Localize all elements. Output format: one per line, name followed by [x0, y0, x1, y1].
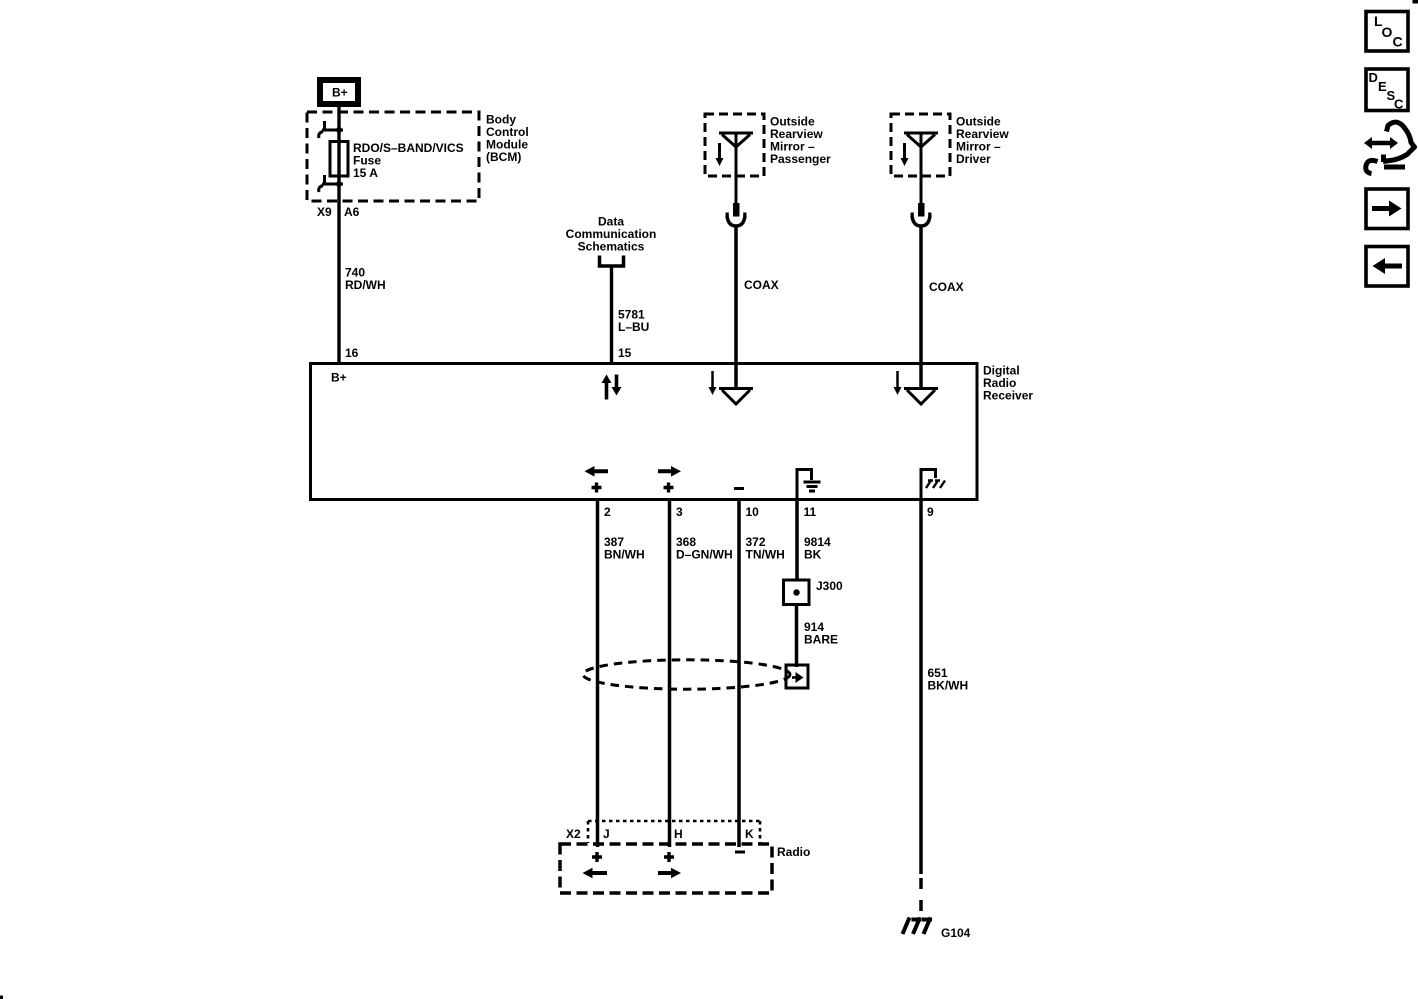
dashed wire segment to G104: [919, 878, 923, 915]
arrow down driver mirror: [901, 143, 909, 166]
svg-text:C: C: [1393, 34, 1403, 50]
right audio arrow pin 3: [658, 466, 681, 477]
svg-text:H: H: [674, 827, 683, 841]
connector labels X9 A6: [317, 205, 360, 219]
svg-text:11: 11: [804, 505, 817, 519]
svg-text:2: 2: [604, 505, 611, 519]
svg-text:Driver: Driver: [956, 152, 991, 166]
antenna symbol inside box driver: [904, 389, 938, 405]
svg-text:J: J: [603, 827, 610, 841]
svg-text:D–GN/WH: D–GN/WH: [676, 548, 733, 562]
shield ellipse around wires: [583, 660, 790, 689]
wire label 651 BK/WH: [928, 666, 969, 693]
chassis ground symbol pin 9 inside box: [921, 470, 945, 499]
svg-text:3: 3: [676, 505, 683, 519]
ground symbol pin 11 inside box: [797, 470, 821, 499]
icon next arrow button: [1366, 189, 1408, 229]
icon hotspot scribble arrow: [1364, 122, 1415, 173]
svg-text:G104: G104: [941, 926, 971, 940]
svg-text:10: 10: [746, 505, 760, 519]
wire label 740 RD/WH: [345, 266, 386, 293]
plus sign pin 3: [664, 483, 674, 493]
svg-text:Schematics: Schematics: [578, 240, 645, 254]
svg-text:K: K: [745, 827, 754, 841]
arrow down inside box driver: [894, 371, 902, 395]
left arrow in radio box: [583, 868, 608, 879]
wire label 368 D-GN/WH: [676, 535, 733, 562]
fuse RDO/S-BAND/VICS body: [330, 142, 348, 177]
connector X2 dotted strip: [588, 821, 760, 843]
svg-text:O: O: [1382, 24, 1393, 40]
right arrow in radio box: [658, 868, 681, 879]
svg-text:16: 16: [345, 346, 359, 360]
pin number labels 2 3 10 11 9: [604, 505, 934, 519]
page corner mark bottom left: [0, 996, 3, 999]
wire: B+ feed through fuse to pin 16: [337, 104, 340, 363]
svg-text:9: 9: [927, 505, 934, 519]
wire antenna passenger down: [735, 133, 738, 204]
Digital Radio Receiver box U1: [311, 364, 978, 500]
plus sign radio H: [664, 852, 674, 862]
arrow down inside box passenger: [709, 371, 717, 395]
chassis ground G104: [903, 918, 933, 935]
wire splice to shield: [795, 605, 799, 668]
wire label 372 TN/WH: [746, 535, 785, 562]
inline connector passenger: [727, 203, 745, 226]
svg-text:15: 15: [618, 346, 632, 360]
wire: serial data to pin 15: [610, 266, 613, 363]
label fuse RDO/S-BAND/VICS 15 A: [353, 141, 464, 180]
wire label 9814 BK: [804, 535, 831, 562]
wire pin 9 to G104: [919, 500, 923, 875]
wire label 5781 L-BU: [618, 308, 649, 335]
wire antenna driver down: [920, 133, 923, 204]
plus sign radio J: [592, 852, 602, 862]
wire pin 2 to radio J: [596, 500, 600, 848]
inline connector driver: [912, 203, 930, 226]
svg-text:Receiver: Receiver: [983, 389, 1033, 403]
off-page reference bracket: [600, 256, 624, 267]
wire pin 3 to radio H: [668, 500, 672, 848]
minus sign pin 10: [734, 487, 744, 490]
Radio dashed box: [560, 844, 772, 893]
BCM dashed box: [307, 112, 479, 201]
svg-text:A6: A6: [344, 205, 360, 219]
svg-text:TN/WH: TN/WH: [746, 548, 785, 562]
svg-text:Radio: Radio: [777, 845, 810, 859]
icon LOC button: [1366, 12, 1408, 52]
label Digital Radio Receiver: [983, 364, 1033, 403]
wire label 914 BARE: [804, 620, 838, 647]
shield termination box: [786, 665, 808, 688]
svg-text:BN/WH: BN/WH: [604, 548, 645, 562]
svg-text:B+: B+: [331, 371, 347, 385]
label Outside Rearview Mirror - Passenger: [770, 115, 831, 167]
arrow down passenger mirror: [716, 143, 724, 166]
label Outside Rearview Mirror - Driver: [956, 115, 1009, 167]
mirror passenger dashed box: [705, 114, 764, 176]
svg-text:B+: B+: [332, 86, 348, 100]
antenna symbol driver mirror: [904, 133, 938, 147]
svg-text:BK/WH: BK/WH: [928, 679, 969, 693]
fuse clip bottom: [319, 175, 343, 192]
svg-text:Passenger: Passenger: [770, 152, 831, 166]
svg-text:COAX: COAX: [744, 278, 779, 292]
svg-text:RD/WH: RD/WH: [345, 278, 386, 292]
antenna symbol inside box passenger: [719, 389, 753, 405]
svg-text:D: D: [1369, 70, 1378, 85]
svg-text:BARE: BARE: [804, 633, 838, 647]
mirror driver dashed box: [891, 114, 950, 176]
svg-text:BK: BK: [804, 548, 822, 562]
svg-text:(BCM): (BCM): [486, 150, 521, 164]
left audio arrow pin 2: [585, 466, 609, 477]
svg-text:C: C: [1394, 97, 1404, 112]
icon back arrow button: [1366, 247, 1408, 287]
antenna symbol passenger mirror: [719, 133, 753, 147]
minus sign radio K: [735, 851, 745, 854]
plus sign pin 2: [592, 483, 602, 493]
splice J300: [784, 580, 810, 605]
svg-text:L–BU: L–BU: [618, 320, 649, 334]
svg-text:J300: J300: [816, 579, 843, 593]
page corner mark top right: [1413, 0, 1418, 4]
bidirectional data arrows pin 15: [602, 375, 622, 400]
fuse clip top: [319, 121, 343, 138]
label Body Control Module (BCM): [486, 113, 529, 165]
label Data Communication Schematics: [566, 215, 657, 254]
svg-text:15 A: 15 A: [353, 166, 378, 180]
wire pin 11 to splice J300: [795, 500, 799, 581]
icon DESC button: [1366, 69, 1408, 112]
wire COAX driver: [919, 226, 923, 390]
wire COAX passenger: [734, 226, 738, 390]
battery feed symbol B+: [320, 80, 358, 104]
svg-text:COAX: COAX: [929, 280, 964, 294]
svg-text:X9: X9: [317, 205, 332, 219]
wire pin 10 to radio K: [737, 500, 741, 848]
wire label 387 BN/WH: [604, 535, 645, 562]
svg-text:X2: X2: [566, 827, 581, 841]
